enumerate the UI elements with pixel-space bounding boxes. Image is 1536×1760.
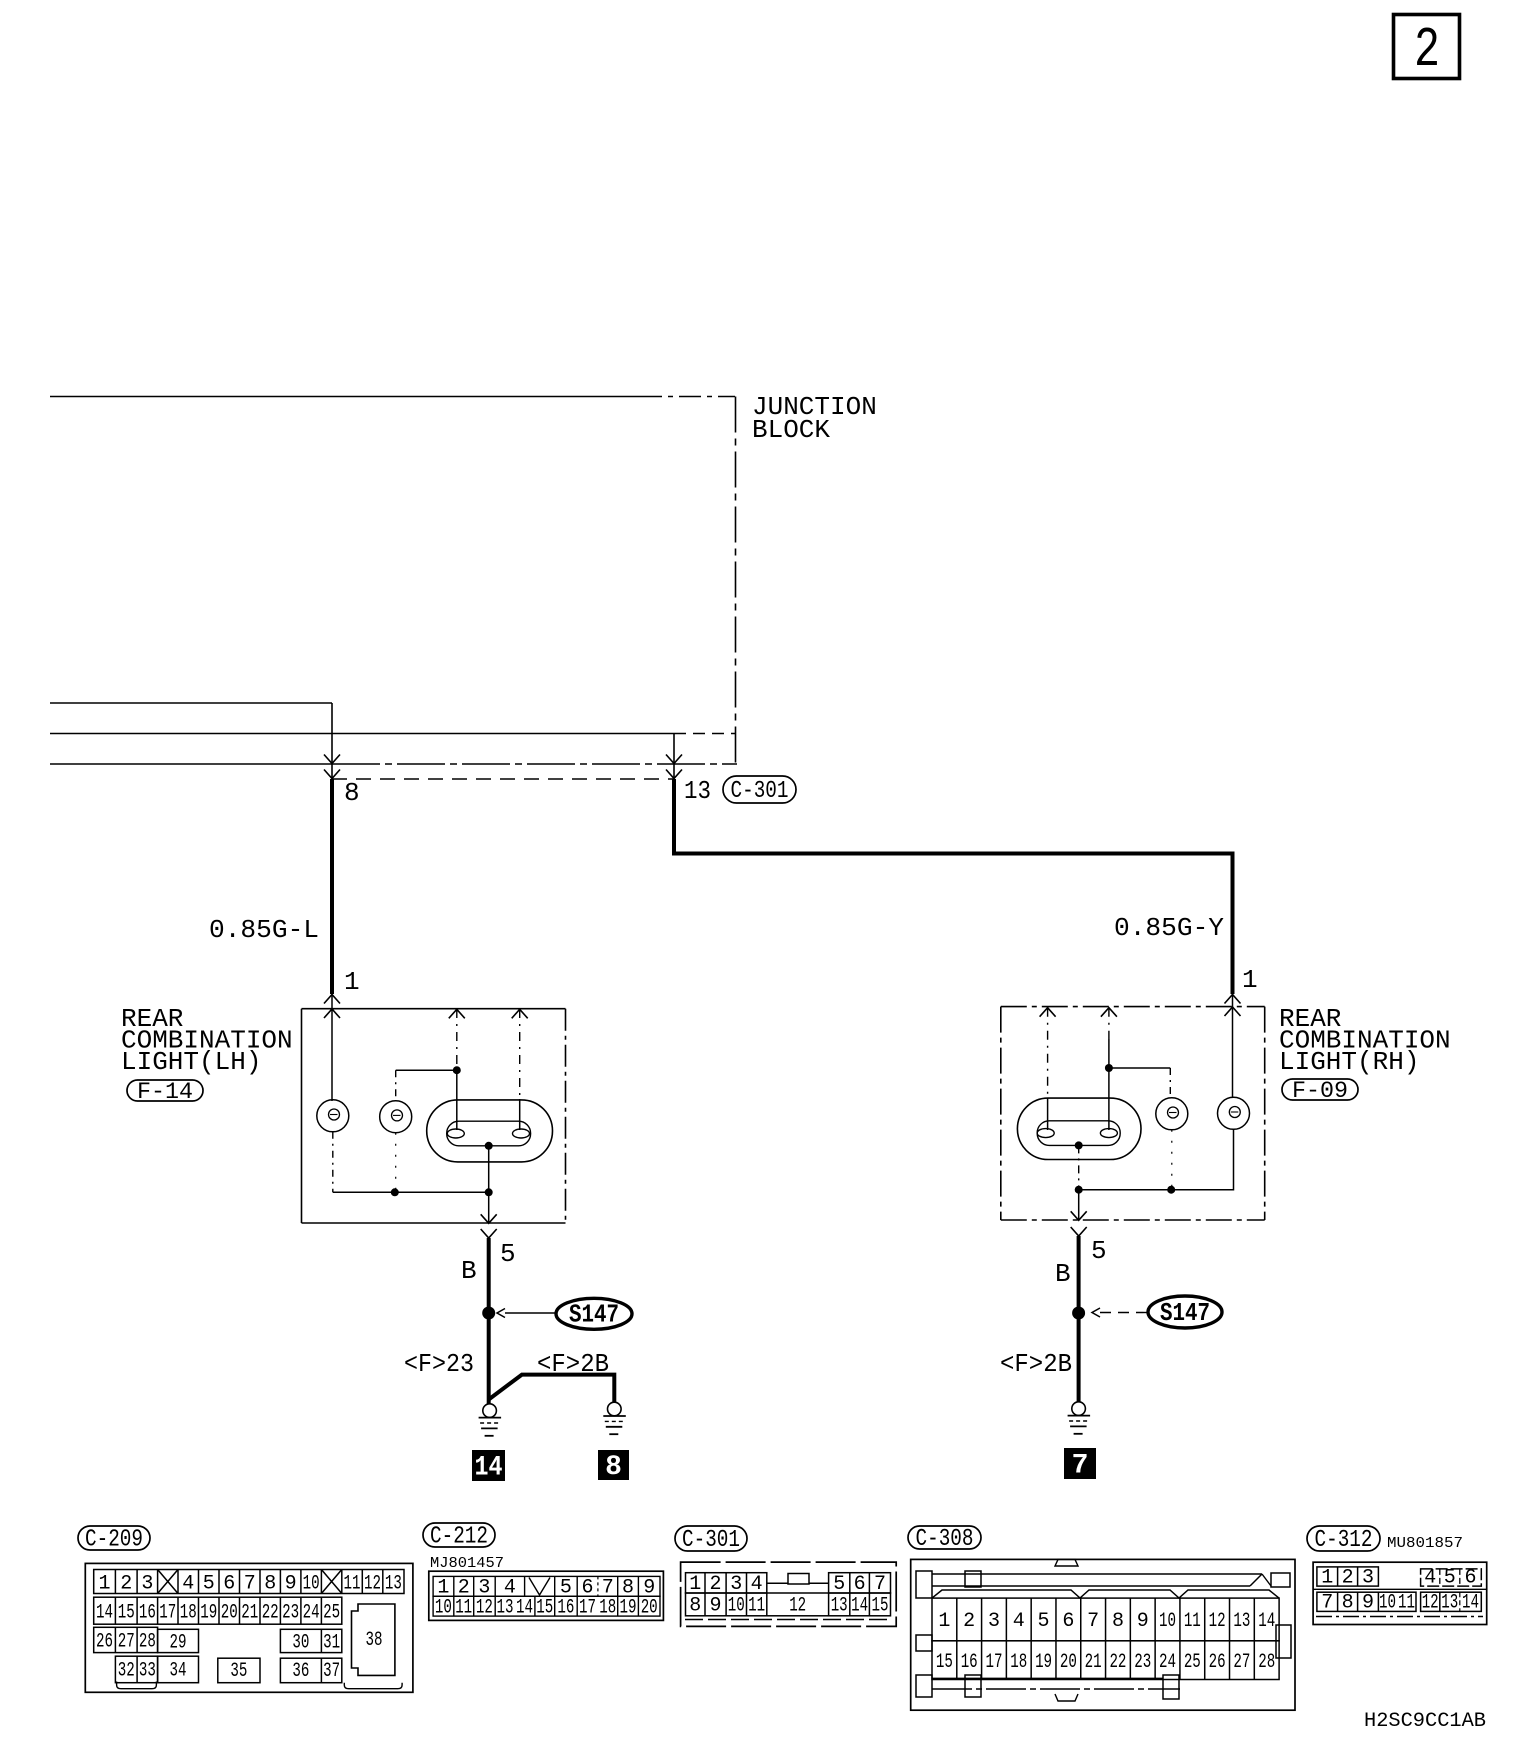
svg-text:23: 23 (282, 1602, 299, 1625)
svg-text:25: 25 (1184, 1651, 1201, 1674)
svg-text:10: 10 (303, 1573, 320, 1596)
svg-text:4: 4 (1013, 1610, 1025, 1633)
svg-text:0.85G-Y: 0.85G-Y (1114, 913, 1224, 943)
svg-text:17: 17 (159, 1602, 176, 1625)
svg-text:LIGHT(LH): LIGHT(LH) (121, 1047, 261, 1077)
svg-text:14: 14 (1258, 1610, 1275, 1633)
svg-text:12: 12 (1209, 1610, 1226, 1633)
svg-text:17: 17 (579, 1596, 596, 1619)
svg-text:C-212: C-212 (430, 1524, 488, 1551)
svg-text:6: 6 (223, 1573, 235, 1596)
svg-text:LIGHT(RH): LIGHT(RH) (1279, 1047, 1419, 1077)
svg-text:1: 1 (99, 1573, 111, 1596)
svg-text:1: 1 (1321, 1566, 1333, 1589)
svg-text:7: 7 (1087, 1610, 1099, 1633)
svg-text:15: 15 (872, 1595, 889, 1618)
svg-text:1: 1 (344, 967, 360, 997)
svg-text:25: 25 (323, 1602, 340, 1625)
svg-text:10: 10 (1379, 1592, 1396, 1615)
svg-text:C-301: C-301 (731, 778, 789, 805)
svg-text:9: 9 (285, 1573, 297, 1596)
svg-text:27: 27 (118, 1630, 135, 1653)
svg-text:27: 27 (1233, 1651, 1250, 1674)
svg-text:18: 18 (599, 1596, 616, 1619)
svg-text:S147: S147 (569, 1300, 619, 1330)
svg-text:S147: S147 (1160, 1298, 1210, 1328)
svg-text:13: 13 (684, 776, 711, 806)
svg-text:<F>2B: <F>2B (537, 1349, 609, 1379)
svg-text:32: 32 (118, 1660, 135, 1683)
svg-text:4: 4 (1424, 1566, 1436, 1589)
svg-text:8: 8 (264, 1573, 276, 1596)
svg-text:8: 8 (344, 778, 360, 808)
svg-text:14: 14 (1462, 1592, 1479, 1615)
svg-text:F-14: F-14 (137, 1079, 193, 1105)
svg-text:B: B (461, 1256, 477, 1286)
svg-text:26: 26 (96, 1630, 113, 1653)
svg-text:22: 22 (262, 1602, 279, 1625)
svg-text:4: 4 (182, 1573, 194, 1596)
svg-text:9: 9 (1362, 1592, 1374, 1615)
svg-text:13: 13 (1441, 1592, 1458, 1615)
svg-text:MU801857: MU801857 (1387, 1535, 1463, 1552)
svg-text:C-312: C-312 (1315, 1527, 1373, 1554)
svg-text:8: 8 (605, 1452, 622, 1483)
svg-text:13: 13 (1233, 1610, 1250, 1633)
svg-text:15: 15 (118, 1602, 135, 1625)
svg-text:7: 7 (1072, 1451, 1089, 1482)
svg-text:1: 1 (1242, 965, 1258, 995)
svg-text:11: 11 (748, 1595, 765, 1618)
svg-text:H2SC9CC1AB: H2SC9CC1AB (1364, 1710, 1486, 1733)
svg-text:<F>23: <F>23 (404, 1349, 474, 1379)
svg-text:14: 14 (516, 1596, 533, 1619)
svg-text:C-308: C-308 (916, 1526, 974, 1553)
svg-text:7: 7 (244, 1573, 256, 1596)
svg-text:BLOCK: BLOCK (752, 415, 830, 445)
svg-text:24: 24 (303, 1602, 320, 1625)
svg-text:23: 23 (1134, 1651, 1151, 1674)
svg-text:5: 5 (500, 1239, 516, 1269)
svg-text:7: 7 (1321, 1592, 1333, 1615)
svg-text:1: 1 (938, 1610, 950, 1633)
svg-text:11: 11 (1184, 1610, 1201, 1633)
svg-text:<F>2B: <F>2B (1000, 1349, 1072, 1379)
svg-text:20: 20 (1060, 1651, 1077, 1674)
svg-text:21: 21 (241, 1602, 258, 1625)
svg-text:19: 19 (1035, 1651, 1052, 1674)
svg-text:0.85G-L: 0.85G-L (209, 915, 319, 945)
svg-text:B: B (1055, 1259, 1071, 1289)
svg-text:5: 5 (1038, 1610, 1050, 1633)
svg-text:11: 11 (344, 1573, 361, 1596)
svg-text:3: 3 (141, 1573, 153, 1596)
svg-text:33: 33 (139, 1660, 156, 1683)
svg-text:18: 18 (180, 1602, 197, 1625)
svg-text:19: 19 (620, 1596, 637, 1619)
svg-text:6: 6 (1464, 1566, 1476, 1589)
svg-text:14: 14 (851, 1595, 868, 1618)
svg-text:20: 20 (641, 1596, 658, 1619)
svg-text:2: 2 (120, 1573, 132, 1596)
svg-text:10: 10 (1159, 1610, 1176, 1633)
svg-text:21: 21 (1085, 1651, 1102, 1674)
svg-text:28: 28 (1258, 1651, 1275, 1674)
svg-text:8: 8 (689, 1595, 701, 1618)
svg-text:38: 38 (366, 1629, 383, 1652)
svg-text:14: 14 (96, 1602, 113, 1625)
svg-text:9: 9 (709, 1595, 721, 1618)
svg-text:3: 3 (1362, 1566, 1374, 1589)
svg-text:13: 13 (385, 1573, 402, 1596)
svg-text:29: 29 (170, 1631, 187, 1654)
svg-text:20: 20 (221, 1602, 238, 1625)
svg-text:10: 10 (728, 1595, 745, 1618)
svg-text:36: 36 (292, 1660, 309, 1683)
svg-text:2: 2 (1342, 1566, 1354, 1589)
svg-text:16: 16 (961, 1651, 978, 1674)
svg-text:5: 5 (1091, 1236, 1107, 1266)
svg-text:12: 12 (476, 1596, 493, 1619)
svg-text:11: 11 (455, 1596, 472, 1619)
svg-text:14: 14 (475, 1453, 503, 1484)
svg-text:MJ801457: MJ801457 (430, 1555, 504, 1572)
svg-text:30: 30 (292, 1631, 309, 1654)
svg-text:15: 15 (936, 1651, 953, 1674)
svg-text:5: 5 (1444, 1566, 1456, 1589)
svg-text:11: 11 (1398, 1592, 1415, 1615)
svg-text:26: 26 (1209, 1651, 1226, 1674)
svg-text:10: 10 (435, 1596, 452, 1619)
svg-text:34: 34 (170, 1660, 187, 1683)
svg-text:28: 28 (139, 1630, 156, 1653)
svg-text:16: 16 (139, 1602, 156, 1625)
svg-text:6: 6 (1062, 1610, 1074, 1633)
svg-text:8: 8 (1342, 1592, 1354, 1615)
svg-text:37: 37 (323, 1660, 340, 1683)
svg-text:19: 19 (200, 1602, 217, 1625)
svg-text:22: 22 (1109, 1651, 1126, 1674)
svg-text:5: 5 (203, 1573, 215, 1596)
svg-text:31: 31 (323, 1631, 340, 1654)
svg-text:C-209: C-209 (85, 1527, 143, 1554)
svg-text:13: 13 (831, 1595, 848, 1618)
svg-text:C-301: C-301 (682, 1527, 740, 1554)
svg-text:24: 24 (1159, 1651, 1176, 1674)
svg-text:15: 15 (536, 1596, 553, 1619)
svg-text:16: 16 (557, 1596, 574, 1619)
svg-text:2: 2 (1414, 18, 1440, 82)
svg-text:8: 8 (1112, 1610, 1124, 1633)
svg-text:13: 13 (497, 1596, 514, 1619)
svg-text:2: 2 (963, 1610, 975, 1633)
svg-text:35: 35 (230, 1660, 247, 1683)
svg-text:F-09: F-09 (1292, 1078, 1348, 1104)
svg-text:12: 12 (1422, 1592, 1439, 1615)
svg-text:3: 3 (988, 1610, 1000, 1633)
svg-text:12: 12 (789, 1595, 806, 1618)
svg-text:18: 18 (1010, 1651, 1027, 1674)
svg-text:12: 12 (364, 1573, 381, 1596)
svg-text:9: 9 (1137, 1610, 1149, 1633)
svg-text:17: 17 (985, 1651, 1002, 1674)
